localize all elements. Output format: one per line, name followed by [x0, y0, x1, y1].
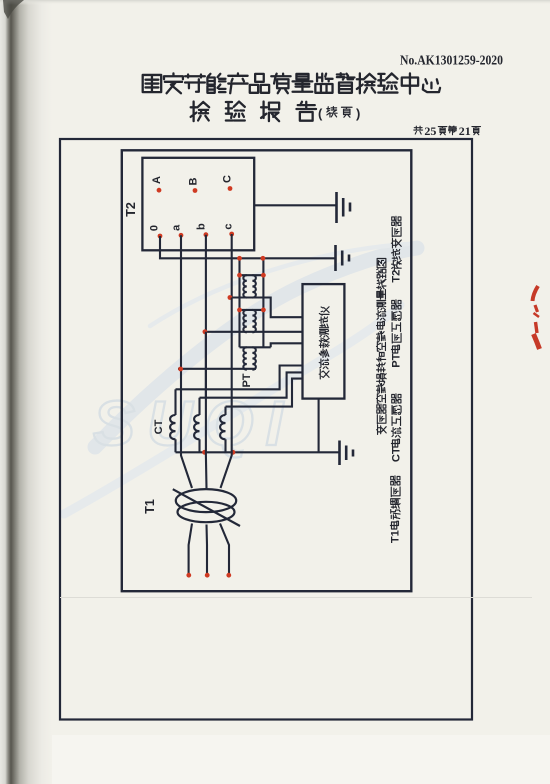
AC parameter tester U1 [303, 284, 345, 399]
wire neutral 0 [160, 236, 336, 258]
wire CT3 output [226, 379, 303, 407]
node T1 lead2 [205, 573, 210, 578]
svg-text:T1: T1 [143, 499, 157, 514]
wire CT1 output [176, 366, 303, 390]
wire T1 lead 1 [189, 524, 192, 575]
svg-text:No.AK1301259-2020: No.AK1301259-2020 [400, 53, 503, 68]
svg-text:b: b [196, 223, 208, 230]
pin label a (T2 LV) [171, 224, 183, 231]
node B [193, 188, 198, 193]
red stamp fragment [533, 286, 540, 349]
caption circuit title [377, 259, 387, 435]
legend T1 [390, 476, 402, 543]
svg-text:T1: T1 [390, 530, 402, 543]
wire phase b lower [205, 332, 207, 398]
pin label b (T2 LV) [196, 223, 208, 230]
wire T1 lead 3 [220, 524, 229, 575]
wire a to T1 [181, 389, 192, 488]
svg-text:21: 21 [459, 124, 471, 138]
svg-text:0: 0 [149, 225, 161, 231]
node b [204, 232, 209, 237]
ground G2 [336, 245, 350, 271]
pin label C (T2 HV) [222, 175, 234, 183]
node c [229, 232, 234, 237]
pin label c (T2 LV) [223, 224, 235, 230]
svg-text:CT: CT [391, 447, 403, 462]
node PT3-a junction [178, 367, 183, 372]
wire PT2 output [205, 331, 303, 333]
wire PT3 bottom [178, 368, 256, 370]
voltage transformer PT2 [240, 310, 264, 332]
legend PT [391, 300, 403, 368]
legend CT [391, 394, 403, 462]
legend T2 [391, 216, 403, 282]
node PT2 left [237, 308, 242, 313]
svg-text:a: a [171, 224, 183, 231]
wire c to T1 [221, 407, 232, 488]
pin label A (T2 HV) [151, 176, 163, 184]
wire phase b [205, 235, 207, 398]
node rail1-neutral [237, 256, 242, 261]
wire T1 lead 2 [205, 525, 208, 575]
wire PT primary rail [238, 258, 240, 347]
voltage transformer PT1 [240, 275, 264, 297]
ground G1 [337, 192, 351, 223]
svg-text:(: ( [318, 106, 323, 121]
wire T2 tank to ground [254, 204, 336, 206]
wire PT1 output [230, 298, 303, 318]
svg-text:CT: CT [153, 419, 165, 434]
wire b to T1 [205, 398, 208, 488]
wire PT secondary rail [262, 257, 264, 347]
node rail2-neutral [261, 256, 266, 261]
transformer T2 box [142, 158, 254, 251]
node T1 lead1 [186, 573, 191, 578]
wire PT3 output [271, 343, 303, 347]
node T1 lead3 [226, 573, 231, 578]
svg-text:SUQI: SUQI [93, 389, 295, 459]
svg-text:c: c [223, 224, 235, 230]
node PT1 right [261, 273, 266, 278]
svg-text:25: 25 [424, 124, 436, 138]
pin label B (T2 HV) [188, 177, 200, 185]
svg-text:PT: PT [241, 373, 253, 387]
label PT [241, 373, 253, 387]
pin label 0 (T2 LV) [149, 225, 161, 231]
svg-text:): ) [356, 106, 360, 121]
node 0 [158, 234, 163, 239]
wire CT2 output [200, 372, 303, 397]
node PT1 left [237, 273, 242, 278]
wire CT common [176, 451, 340, 453]
svg-text:B: B [188, 177, 200, 185]
current transformer CT2 [194, 398, 199, 453]
wire phase a [180, 235, 182, 389]
node common-b [202, 450, 207, 455]
node A [157, 188, 162, 193]
node PT1-c junction [228, 295, 233, 300]
wire tester ground lead [318, 399, 320, 453]
label T1 [143, 499, 157, 514]
current transformer CT3 [220, 407, 225, 453]
label T2 [124, 202, 138, 217]
ground G3 [340, 441, 354, 466]
node C [228, 186, 233, 191]
node common-c [231, 450, 236, 455]
svg-text:T2: T2 [391, 270, 403, 283]
svg-text:PT: PT [391, 353, 403, 367]
label CT [153, 419, 165, 434]
wire phase c lower [231, 298, 233, 407]
node PT2-b junction [203, 329, 208, 334]
node a [179, 233, 184, 238]
svg-text:A: A [151, 176, 163, 184]
voltage transformer PT3 [240, 347, 271, 369]
wire phase c [231, 234, 233, 298]
svg-text:T2: T2 [124, 202, 138, 217]
node PT2 right [261, 308, 266, 313]
current transformer CT1 [170, 389, 175, 452]
variac T1 [173, 489, 240, 526]
svg-text:C: C [222, 175, 234, 183]
